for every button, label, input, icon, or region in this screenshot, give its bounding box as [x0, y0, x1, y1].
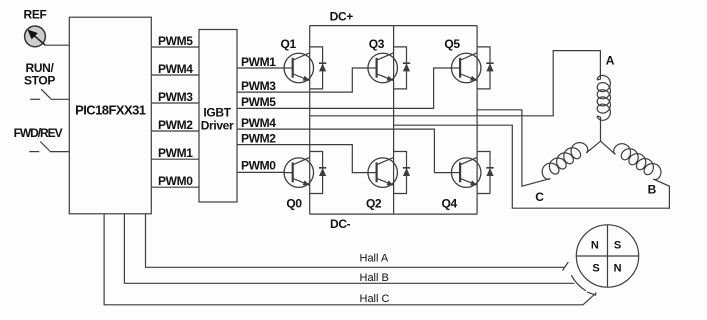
svg-text:Q4: Q4	[442, 197, 458, 211]
svg-text:FWD/REV: FWD/REV	[14, 126, 63, 140]
wire Hall C from PIC	[104, 214, 596, 305]
wire PWM1 PIC to IGBT driver	[151, 158, 199, 160]
IGBT driver U2	[199, 30, 237, 203]
svg-text:N: N	[591, 240, 599, 252]
svg-text:Q2: Q2	[366, 197, 382, 211]
wire PWM1 to Q1 base	[237, 67, 284, 69]
wire bridge leg vertical	[309, 26, 311, 215]
svg-text:N: N	[614, 262, 622, 274]
svg-text:A: A	[606, 54, 615, 68]
svg-text:PWM2: PWM2	[241, 131, 276, 145]
switch FWD/REV	[29, 142, 50, 152]
svg-text:Driver: Driver	[201, 119, 234, 133]
svg-text:Q0: Q0	[286, 197, 302, 211]
svg-text:PIC18FXX31: PIC18FXX31	[75, 103, 146, 118]
svg-text:PWM1: PWM1	[241, 55, 276, 69]
svg-text:PWM2: PWM2	[158, 118, 193, 132]
svg-text:S: S	[592, 262, 599, 274]
wire phase B from leg2 to motor	[394, 125, 670, 208]
hall sensor arc	[571, 275, 586, 291]
diode D4 (freewheel)	[477, 152, 494, 194]
svg-text:Q3: Q3	[369, 37, 385, 51]
wire Hall A from PIC	[146, 214, 565, 267]
svg-text:Q5: Q5	[444, 37, 460, 51]
wire coil A to star point	[597, 116, 600, 141]
diode D2 (freewheel)	[394, 152, 411, 194]
svg-text:IGBT: IGBT	[203, 105, 231, 119]
svg-text:PWM1: PWM1	[158, 146, 193, 160]
wire bridge leg vertical	[393, 26, 395, 215]
winding phase B coil	[614, 144, 661, 180]
diode D0 (freewheel)	[310, 152, 327, 194]
wire RUN/STOP to PIC	[51, 98, 70, 100]
wire PWM5 to Q5 base	[237, 68, 452, 108]
wire PWM0 PIC to IGBT driver	[151, 186, 199, 188]
svg-text:PWM4: PWM4	[158, 62, 193, 76]
DC- rail	[310, 213, 477, 215]
transistor Q4	[451, 157, 481, 187]
DC+ rail	[310, 25, 477, 27]
wire FWD/REV to PIC	[50, 151, 70, 153]
wire PWM2 to Q2 base	[237, 145, 368, 173]
svg-text:S: S	[614, 240, 621, 252]
hall sensor C tick	[587, 292, 596, 295]
potentiometer REF	[25, 26, 46, 47]
wire coil C to star point	[586, 141, 600, 153]
wire bridge leg vertical	[476, 26, 478, 215]
svg-text:STOP: STOP	[24, 74, 55, 88]
transistor Q5	[451, 53, 481, 83]
diode D1 (freewheel)	[310, 47, 327, 89]
svg-text:PWM0: PWM0	[241, 159, 276, 173]
svg-text:PWM5: PWM5	[241, 95, 276, 109]
svg-text:Q1: Q1	[281, 37, 297, 51]
svg-text:PWM5: PWM5	[158, 34, 193, 48]
diode D3 (freewheel)	[394, 47, 411, 89]
svg-text:PWM3: PWM3	[158, 90, 193, 104]
microcontroller U1 PIC18FXX31	[69, 17, 151, 214]
svg-text:DC-: DC-	[330, 217, 351, 231]
svg-text:B: B	[648, 183, 657, 197]
transistor Q0	[284, 157, 314, 187]
svg-text:Hall A: Hall A	[360, 253, 389, 265]
svg-text:Hall B: Hall B	[360, 272, 389, 284]
wire PWM5 PIC to IGBT driver	[151, 46, 199, 48]
wire PWM4 to Q4 base	[237, 129, 452, 173]
wire REF to PIC	[45, 44, 69, 46]
svg-text:Hall C: Hall C	[360, 293, 390, 305]
transistor Q1	[284, 53, 314, 83]
svg-text:REF: REF	[24, 8, 47, 22]
svg-text:PWM3: PWM3	[241, 79, 276, 93]
svg-text:PWM0: PWM0	[158, 174, 193, 188]
wire PWM4 PIC to IGBT driver	[151, 74, 199, 76]
hall sensor A tick	[563, 262, 569, 271]
wire PWM3 to Q3 base	[237, 68, 368, 92]
switch RUN/STOP	[30, 89, 51, 99]
transistor Q2	[368, 157, 398, 187]
winding phase C coil	[542, 143, 588, 180]
winding phase A coil	[597, 75, 610, 120]
wire PWM2 PIC to IGBT driver	[151, 130, 199, 132]
transistor Q3	[368, 53, 398, 83]
rotor magnet circle	[576, 225, 638, 287]
wire PWM3 PIC to IGBT driver	[151, 102, 199, 104]
svg-text:C: C	[535, 190, 544, 204]
diode D5 (freewheel)	[477, 47, 494, 89]
wire coil B to star point	[601, 141, 616, 154]
wire Hall B from PIC	[124, 214, 574, 283]
svg-text:PWM4: PWM4	[241, 116, 276, 130]
wire phase C from leg3 to motor	[477, 110, 550, 186]
svg-text:DC+: DC+	[330, 9, 354, 23]
wire PWM0 to Q0 base	[237, 171, 284, 173]
wire phase A from leg1 to motor	[310, 51, 601, 116]
